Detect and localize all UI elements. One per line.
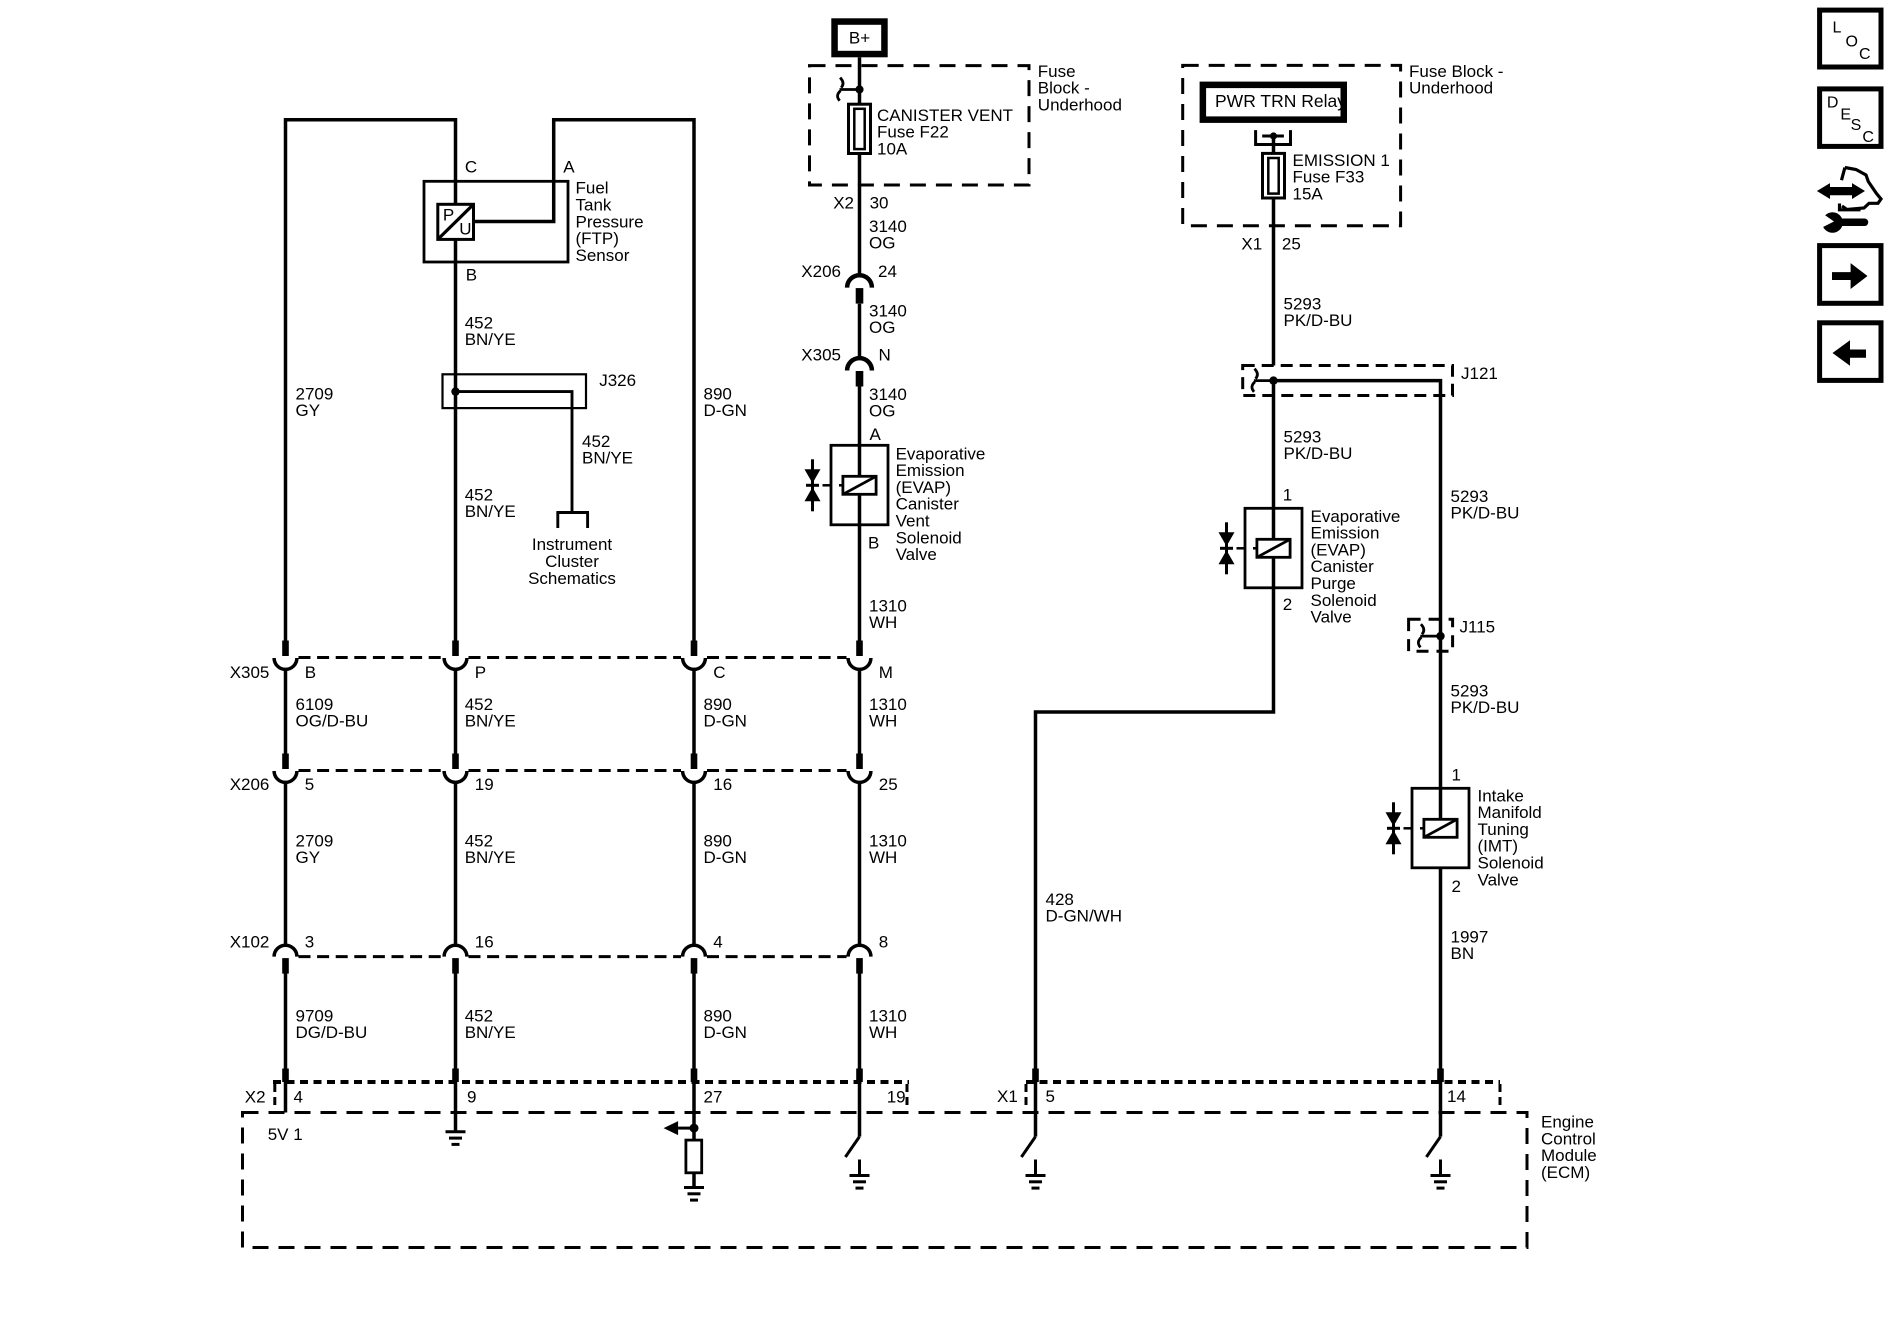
svg-text:X305: X305 [801, 345, 841, 364]
svg-text:PWR TRN Relay: PWR TRN Relay [1215, 91, 1346, 111]
svg-text:N: N [879, 345, 891, 364]
svg-text:X102: X102 [230, 932, 270, 951]
wire col3 X102 to ECM X2 [692, 974, 696, 1069]
wire col1 X305 to X206 [284, 669, 288, 755]
svg-text:9: 9 [467, 1087, 476, 1106]
fuse F33 EMISSION 1 15A [1263, 153, 1285, 198]
wire col4 X102 to ECM X2 [858, 974, 862, 1069]
ECM internal driver switch pin 19 [858, 1113, 862, 1137]
FTP transducer P/U symbol [438, 204, 474, 239]
svg-text:3: 3 [305, 932, 314, 951]
connector row X305 (pins B P C M) [299, 656, 443, 659]
svg-text:PK/D-BU: PK/D-BU [1284, 311, 1353, 330]
wire 1310 WH vent valve to X305-M [858, 495, 862, 643]
relay node PWR TRN Relay [1203, 85, 1344, 120]
svg-text:Underhood: Underhood [1409, 79, 1493, 98]
svg-text:J121: J121 [1461, 364, 1498, 383]
sensor U1 Fuel Tank Pressure FTP box [424, 181, 568, 262]
svg-text:X206: X206 [230, 775, 270, 794]
wire X206-24 to X305-N [858, 304, 862, 358]
fuse block underhood box (right) [1183, 65, 1401, 225]
junction dot at F22 clip [855, 85, 863, 93]
svg-text:A: A [563, 158, 575, 177]
wire col2 X305 to X206 [454, 669, 458, 755]
fuse clip hook at F22 [840, 88, 860, 91]
svg-text:B: B [868, 533, 879, 552]
svg-text:24: 24 [878, 262, 897, 281]
wire col2 X102 to ECM X2 [454, 974, 458, 1069]
svg-text:4: 4 [294, 1087, 303, 1106]
svg-text:S: S [1851, 117, 1862, 134]
junction dot at relay socket [1270, 132, 1277, 139]
svg-text:WH: WH [869, 711, 897, 730]
svg-text:BN: BN [1451, 944, 1475, 963]
svg-text:Valve: Valve [1311, 608, 1352, 627]
wire 428 D-GN/WH purge valve to ECM X1-5 [1036, 557, 1274, 1068]
fuse clip hook at J121 [1254, 379, 1274, 382]
pin stub col2 at ECM X2 [452, 1069, 459, 1083]
svg-text:C: C [465, 158, 477, 177]
solenoid coil vent [843, 476, 876, 494]
svg-text:A: A [870, 425, 882, 444]
svg-text:WH: WH [869, 848, 897, 867]
wire col1 into ECM [284, 1082, 288, 1113]
wire J326 branch to instrument cluster [456, 392, 573, 512]
svg-text:BN/YE: BN/YE [465, 502, 516, 521]
svg-text:B: B [305, 663, 316, 682]
svg-text:OG: OG [869, 318, 895, 337]
pin stub X1-14 [1437, 1069, 1444, 1083]
svg-text:D: D [1827, 95, 1839, 112]
wire col3 into ECM [692, 1082, 696, 1113]
svg-text:27: 27 [704, 1087, 723, 1106]
pin stub col3 at ECM X2 [691, 1069, 698, 1083]
junction dot J115 [1436, 632, 1444, 640]
wire col1 X206 to X102 [284, 782, 288, 945]
svg-text:L: L [1833, 20, 1842, 37]
junction dot J121 [1269, 376, 1277, 384]
wire fuse F33 to X1-25 [1272, 198, 1276, 366]
wire relay to fuse F33 [1272, 136, 1276, 153]
inline connector X305 pin N [847, 358, 872, 370]
svg-text:19: 19 [887, 1087, 906, 1106]
svg-text:X206: X206 [801, 262, 841, 281]
svg-text:PK/D-BU: PK/D-BU [1451, 503, 1520, 522]
svg-text:Underhood: Underhood [1038, 95, 1122, 114]
svg-text:5: 5 [305, 775, 314, 794]
svg-text:GY: GY [296, 848, 321, 867]
pin stub col1 at ECM X2 [282, 1069, 289, 1083]
svg-text:X1: X1 [1241, 234, 1262, 253]
svg-text:PK/D-BU: PK/D-BU [1451, 698, 1520, 717]
fuse clip hook at J115 [1420, 635, 1440, 638]
svg-text:OG: OG [869, 401, 895, 420]
wire J121 to EVAP purge valve [1272, 381, 1276, 540]
svg-text:D-GN: D-GN [704, 848, 747, 867]
wire X1-5 into ECM [1034, 1082, 1038, 1113]
solenoid coil IMT [1424, 819, 1457, 837]
connector X1 dotted line [1026, 1080, 1500, 1084]
splice pack J326 box [443, 374, 587, 408]
svg-text:25: 25 [1282, 234, 1301, 253]
svg-text:J326: J326 [599, 371, 636, 390]
wire FTP sensor pin C loop (2709 GY feed) [286, 120, 456, 642]
sidebar icon LOC [1820, 10, 1881, 67]
wire col2 X206 to X102 [454, 782, 458, 945]
wire B+ to fuse F22 [858, 57, 862, 104]
solenoid coil purge [1257, 539, 1290, 557]
svg-text:8: 8 [879, 932, 888, 951]
svg-text:D-GN: D-GN [704, 1023, 747, 1042]
svg-text:P: P [443, 205, 454, 224]
sidebar icon DESC [1820, 89, 1881, 146]
svg-text:BN/YE: BN/YE [465, 711, 516, 730]
ECM internal pull-up pin 27 [692, 1113, 696, 1141]
wire col2 into ECM [454, 1082, 458, 1113]
svg-text:19: 19 [475, 775, 494, 794]
svg-text:C: C [713, 663, 725, 682]
solenoid valve vent body [831, 445, 888, 525]
wire FTP sensor pin A loop (890 D-GN) [474, 120, 695, 642]
svg-text:4: 4 [713, 932, 722, 951]
wire col3 X206 to X102 [692, 782, 696, 945]
power node B+ [835, 22, 885, 55]
svg-text:BN/YE: BN/YE [465, 1023, 516, 1042]
svg-text:1: 1 [1283, 486, 1292, 505]
svg-text:15A: 15A [1293, 185, 1324, 204]
wire X1-14 into ECM [1439, 1082, 1443, 1113]
svg-text:BN/YE: BN/YE [582, 448, 633, 467]
wire col4 X305 to X206 [858, 669, 862, 755]
svg-text:P: P [475, 663, 486, 682]
connector row X102 (pins 3 16 4 8) [299, 955, 443, 958]
connector X2 dotted line [273, 1080, 909, 1084]
svg-text:16: 16 [713, 775, 732, 794]
solenoid valve purge body [1245, 508, 1302, 588]
svg-text:B: B [466, 266, 477, 285]
svg-text:D-GN/WH: D-GN/WH [1046, 906, 1122, 925]
svg-text:10A: 10A [877, 139, 908, 158]
splice J115 dashed box [1409, 619, 1453, 651]
svg-text:X305: X305 [230, 663, 270, 682]
pin stub X1-5 [1032, 1069, 1039, 1083]
ECM internal ground pin 9 [454, 1113, 458, 1132]
fuse F22 CANISTER VENT 10A [849, 104, 871, 153]
ECM internal driver switch pin 14 [1439, 1113, 1443, 1137]
svg-text:GY: GY [296, 401, 321, 420]
svg-text:C: C [1862, 129, 1874, 146]
wire col3 X305 to X206 [692, 669, 696, 755]
svg-text:2: 2 [1452, 877, 1461, 896]
clamping diode vent [811, 459, 814, 511]
wire fuse F22 to connector X2-30 [858, 154, 862, 276]
svg-text:D-GN: D-GN [704, 711, 747, 730]
svg-text:D-GN: D-GN [704, 401, 747, 420]
wire X305-N to EVAP vent valve [858, 387, 862, 477]
svg-text:BN/YE: BN/YE [465, 330, 516, 349]
svg-text:J115: J115 [1460, 617, 1496, 636]
svg-text:30: 30 [870, 194, 889, 213]
clamping diode IMT [1392, 802, 1395, 854]
svg-text:2: 2 [1283, 595, 1292, 614]
off-page connector to instrument cluster [556, 511, 589, 514]
junction dot in J326 [451, 387, 459, 395]
svg-text:(ECM): (ECM) [1541, 1163, 1590, 1182]
connector row X206 (pins 5 19 16 25) [299, 769, 443, 772]
fuse block underhood box (left) [810, 66, 1030, 185]
svg-text:25: 25 [879, 775, 898, 794]
wire col4 X206 to X102 [858, 782, 862, 945]
relay socket bracket [1256, 130, 1291, 144]
inline connector X206 pin 24 [847, 275, 872, 287]
svg-text:X2: X2 [833, 194, 854, 213]
svg-text:C: C [1859, 46, 1871, 63]
svg-text:B+: B+ [849, 29, 870, 48]
svg-text:Sensor: Sensor [576, 246, 630, 265]
svg-text:14: 14 [1447, 1087, 1466, 1106]
wire col4 into ECM [858, 1082, 862, 1113]
ECM internal driver switch pin 5 [1034, 1113, 1038, 1137]
svg-text:X2: X2 [245, 1087, 266, 1106]
splice J121 dashed box [1243, 366, 1453, 396]
svg-text:16: 16 [475, 932, 494, 951]
svg-text:1: 1 [1452, 765, 1461, 784]
svg-text:WH: WH [869, 1023, 897, 1042]
wire 1997 BN IMT valve to ECM X1-14 [1439, 868, 1443, 1068]
svg-text:X1: X1 [997, 1087, 1018, 1106]
svg-text:Valve: Valve [896, 545, 937, 564]
solenoid valve IMT body [1412, 788, 1469, 868]
svg-text:DG/D-BU: DG/D-BU [296, 1023, 368, 1042]
svg-text:O: O [1846, 34, 1858, 51]
svg-text:PK/D-BU: PK/D-BU [1284, 444, 1353, 463]
svg-text:Schematics: Schematics [528, 569, 616, 588]
svg-text:M: M [879, 663, 893, 682]
svg-text:WH: WH [869, 613, 897, 632]
wire 452 BN/YE pin B down to X305 [454, 239, 458, 642]
wire J121 branch right and down to IMT [1274, 381, 1441, 820]
svg-text:U: U [459, 219, 471, 238]
wire col1 X102 to ECM X2 [284, 974, 288, 1069]
svg-text:5V 1: 5V 1 [268, 1125, 303, 1144]
svg-text:Valve: Valve [1478, 870, 1519, 889]
pin stub col4 at ECM X2 [856, 1069, 863, 1083]
svg-text:E: E [1840, 106, 1851, 123]
sidebar icon diagnostic (arrow wrench vehicle) [1817, 183, 1865, 199]
sidebar icon back arrow [1820, 323, 1881, 381]
svg-text:OG: OG [869, 233, 895, 252]
sidebar icon next arrow [1820, 246, 1881, 304]
svg-text:5: 5 [1046, 1087, 1055, 1106]
clamping diode purge [1225, 522, 1228, 574]
svg-text:OG/D-BU: OG/D-BU [296, 711, 369, 730]
svg-text:BN/YE: BN/YE [465, 848, 516, 867]
module ECM dashed box [243, 1113, 1528, 1248]
